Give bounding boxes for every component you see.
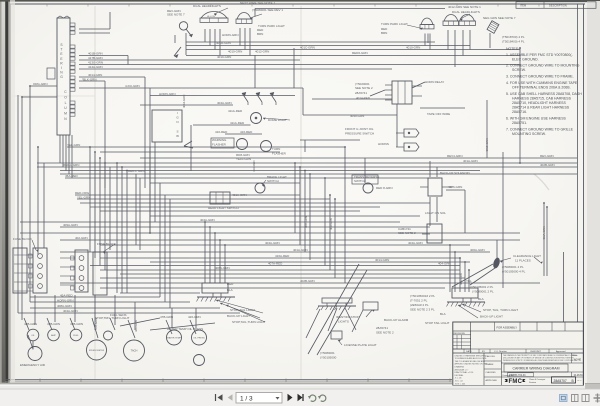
svg-text:BLA: BLA <box>478 297 484 301</box>
svg-text:4014-GRN: 4014-GRN <box>375 258 389 262</box>
svg-text:4014-GRN: 4014-GRN <box>88 73 102 77</box>
svg-text:RED-L GRN: RED-L GRN <box>128 169 144 173</box>
svg-text:4012-GRN SEE NOTE 1: 4012-GRN SEE NOTE 1 <box>448 5 481 9</box>
svg-text:RED: RED <box>227 282 234 286</box>
svg-text:*BLK-GRN: *BLK-GRN <box>82 78 97 82</box>
svg-text:401A-GRN: 401A-GRN <box>293 248 308 252</box>
svg-text:4010-GRN: 4010-GRN <box>406 46 420 50</box>
svg-text:N: N <box>176 120 178 124</box>
svg-text:WATER TEMP OIL PRESS: WATER TEMP OIL PRESS <box>167 327 203 331</box>
svg-text:936655-Y02-04: 936655-Y02-04 <box>509 374 526 377</box>
svg-text:(T5018700) 4 PL: (T5018700) 4 PL <box>502 35 525 39</box>
svg-text:406A-GRN: 406A-GRN <box>470 248 485 252</box>
svg-text:T: T <box>60 48 62 52</box>
svg-text:47B-GRN: 47B-GRN <box>160 315 173 319</box>
svg-text:401B-GRN: 401B-GRN <box>88 52 103 56</box>
svg-text:HORN-GRN: HORN-GRN <box>57 299 74 303</box>
svg-text:STOP, TAIL, TURN LIGHT: STOP, TAIL, TURN LIGHT <box>483 308 518 312</box>
svg-text:SEE NOTE 7: SEE NOTE 7 <box>167 13 185 17</box>
svg-text:47B-GRN: 47B-GRN <box>47 322 60 326</box>
svg-text:.XX ± .02: .XX ± .02 <box>455 381 464 383</box>
svg-text:426-GRN: 426-GRN <box>188 315 201 319</box>
svg-text:TAPE OFF WIRE: TAPE OFF WIRE <box>427 112 450 116</box>
svg-text:FLASHER: FLASHER <box>272 152 287 156</box>
svg-text:Scale: Scale <box>573 355 579 357</box>
svg-text:BACK-UP SOLENOID: BACK-UP SOLENOID <box>440 171 470 175</box>
svg-text:(Y50105000: (Y50105000 <box>320 356 337 360</box>
svg-text:LIGHTS: LIGHTS <box>338 320 349 324</box>
svg-text:APPLIED UNLESS NOTED ON THE: APPLIED UNLESS NOTED ON THE <box>455 363 488 366</box>
svg-text:S: S <box>176 129 178 133</box>
svg-text:TURN PARK LIGHT: TURN PARK LIGHT <box>381 22 408 26</box>
svg-text:FMC: FMC <box>509 379 523 385</box>
svg-text:DESCRIPTION: DESCRIPTION <box>549 4 567 8</box>
svg-text:DRAWING: DRAWING <box>455 366 465 369</box>
svg-text:RED6-GRN: RED6-GRN <box>352 51 368 55</box>
svg-text:WARNING: WARNING <box>212 138 227 142</box>
svg-text:YEL-GRN: YEL-GRN <box>77 196 90 200</box>
svg-text:404A-GRN: 404A-GRN <box>265 241 280 245</box>
svg-text:402B-GRN: 402B-GRN <box>300 279 315 283</box>
svg-text:RED 8-GRN: RED 8-GRN <box>376 186 393 190</box>
svg-text:(T5018400) 4 PL: (T5018400) 4 PL <box>502 40 525 44</box>
svg-text:417B-GRN: 417B-GRN <box>88 56 103 60</box>
svg-text:409A-GRN: 409A-GRN <box>63 223 78 227</box>
svg-text:PRESSURE SWITCH: PRESSURE SWITCH <box>345 132 374 136</box>
svg-text:DUAL HEADLIGHTS: DUAL HEADLIGHTS <box>193 4 221 8</box>
svg-text:4010-GRN: 4010-GRN <box>228 50 242 54</box>
svg-text:TURN: TURN <box>272 147 280 151</box>
svg-text:407A-RED: 407A-RED <box>268 262 283 266</box>
svg-text:408-GRN: 408-GRN <box>304 216 308 228</box>
svg-text:4014-GRN: 4014-GRN <box>182 95 186 108</box>
svg-text:APPROVED: APPROVED <box>486 379 498 382</box>
svg-text:NEG GRN SEE NOTE 7: NEG GRN SEE NOTE 7 <box>483 16 516 20</box>
svg-text:DECIMAL: DECIMAL <box>455 374 465 377</box>
svg-text:EMERGENCY AIR: EMERGENCY AIR <box>20 363 46 367</box>
svg-text:a ---: a --- <box>578 380 582 382</box>
svg-text:RED-L GRN: RED-L GRN <box>63 163 79 167</box>
svg-text:(Y50105001 2 PL: (Y50105001 2 PL <box>470 285 494 289</box>
svg-text:411A-RED: 411A-RED <box>230 121 245 125</box>
svg-text:TOLERANCES ARE AS FOLLOWS:: TOLERANCES ARE AS FOLLOWS: <box>455 357 488 360</box>
svg-text:28A5707: 28A5707 <box>554 379 567 383</box>
svg-text:7. CONNECT GROUND WIRE TO GRIL: 7. CONNECT GROUND WIRE TO GRILLE <box>506 128 574 132</box>
svg-text:4040-GRN: 4040-GRN <box>350 114 364 118</box>
svg-text:426-GRN: 426-GRN <box>134 320 138 332</box>
svg-text:M: M <box>64 112 67 116</box>
svg-text:45A-RED: 45A-RED <box>60 294 74 298</box>
svg-text:G: G <box>60 75 63 79</box>
svg-text:404-GRN: 404-GRN <box>438 262 451 266</box>
svg-text:11 PLACES: 11 PLACES <box>515 259 531 263</box>
svg-text:4014-RED: 4014-RED <box>356 96 371 100</box>
svg-text:404A-GRN: 404A-GRN <box>217 101 232 105</box>
svg-text:IDENTIFICATION: IDENTIFICATION <box>336 315 360 319</box>
svg-text:HEAD LIGHT SWITCH: HEAD LIGHT SWITCH <box>208 206 239 210</box>
svg-text:HORN-GRN: HORN-GRN <box>159 92 176 96</box>
svg-text:.XXX ± .005: .XXX ± .005 <box>455 383 467 385</box>
svg-text:CAD FILE: CAD FILE <box>486 355 496 358</box>
svg-text:NONE: NONE <box>574 359 582 362</box>
svg-text:28A5751.: 28A5751. <box>512 121 527 125</box>
svg-text:(2E50A# 2 PL: (2E50A# 2 PL <box>410 303 429 307</box>
svg-text:REV4-GRN: REV4-GRN <box>447 154 463 158</box>
svg-text:SEE NOTE 2: SEE NOTE 2 <box>355 86 373 90</box>
svg-text:402-GRN: 402-GRN <box>75 236 88 240</box>
svg-text:402B-GRN: 402B-GRN <box>540 163 555 167</box>
svg-text:(Y50105000 4 PL: (Y50105000 4 PL <box>502 270 526 274</box>
svg-text:404A-GRN: 404A-GRN <box>63 309 78 313</box>
svg-text:ORG-GRN: ORG-GRN <box>33 82 48 86</box>
svg-text:ITEM: ITEM <box>520 4 526 8</box>
svg-text:LICENSE PLATE LIGHT: LICENSE PLATE LIGHT <box>344 343 377 347</box>
svg-text:BLA: BLA <box>440 312 446 316</box>
svg-text:47B-GRN: 47B-GRN <box>94 318 98 330</box>
svg-text:OFF TERMINAL ENDS 206A & 206B.: OFF TERMINAL ENDS 206A & 206B. <box>512 86 571 90</box>
svg-text:404A-GRN: 404A-GRN <box>408 241 423 245</box>
svg-text:416A-RED: 416A-RED <box>275 254 290 258</box>
svg-text:408A-GRN: 408A-GRN <box>57 304 72 308</box>
svg-text:SCREW.: SCREW. <box>512 68 526 72</box>
svg-text:(Y5080001 SEE REV 1: (Y5080001 SEE REV 1 <box>252 8 283 12</box>
svg-text:CHKD/INIT: CHKD/INIT <box>530 351 542 353</box>
svg-text:47B-GRN: 47B-GRN <box>70 322 83 326</box>
svg-text:401D-GRN: 401D-GRN <box>216 41 231 45</box>
svg-text:4012-GRN: 4012-GRN <box>255 50 269 54</box>
svg-text:FUEL: FUEL <box>73 335 79 337</box>
svg-text:DATE: DATE <box>466 350 472 353</box>
svg-text:NEXT WIRE SEE NOTE 1: NEXT WIRE SEE NOTE 1 <box>240 1 275 5</box>
svg-text:WATER TEMP: WATER TEMP <box>167 337 182 340</box>
svg-text:SWITCH: SWITCH <box>267 179 279 183</box>
svg-text:411A-RED: 411A-RED <box>228 109 243 113</box>
svg-text:LIGHT ON SOL: LIGHT ON SOL <box>425 211 446 215</box>
svg-text:406A-GRN: 406A-GRN <box>542 226 546 240</box>
svg-text:(Y5080001: (Y5080001 <box>320 351 335 355</box>
svg-text:28A5741: 28A5741 <box>355 91 367 95</box>
svg-text:CHECKED: CHECKED <box>486 372 497 374</box>
svg-text:BLA: BLA <box>227 288 233 292</box>
svg-text:FLASHER: FLASHER <box>212 143 227 147</box>
svg-text:1 / 3: 1 / 3 <box>240 396 253 403</box>
svg-text:28A5714 & REAR LIGHT HARNESS: 28A5714 & REAR LIGHT HARNESS <box>512 106 570 110</box>
svg-text:DUAL HEADLIGHTS: DUAL HEADLIGHTS <box>452 10 480 14</box>
svg-text:28A5741: 28A5741 <box>376 326 388 330</box>
svg-text:HORN-GRN: HORN-GRN <box>222 33 239 37</box>
svg-text:409-GRN: 409-GRN <box>329 218 333 230</box>
svg-text:TACH: TACH <box>131 349 138 353</box>
svg-text:28A5716.: 28A5716. <box>512 110 527 114</box>
svg-text:REV-GRN: REV-GRN <box>540 154 554 158</box>
svg-text:HI-LOW: HI-LOW <box>207 16 216 18</box>
svg-text:ELEC GROUND.: ELEC GROUND. <box>512 58 539 62</box>
svg-text:SWITCH: SWITCH <box>354 179 366 183</box>
svg-text:STOP TAIL LIGHT: STOP TAIL LIGHT <box>425 321 450 325</box>
svg-text:I: I <box>61 66 62 70</box>
svg-text:HORNS: HORNS <box>378 142 389 146</box>
svg-text:FRACTIONAL ± 1/16: FRACTIONAL ± 1/16 <box>455 371 475 374</box>
svg-text:YEL0-GRN: YEL0-GRN <box>236 157 251 161</box>
svg-text:(Y50105001# 2 PL: (Y50105001# 2 PL <box>410 294 435 298</box>
svg-text:406A-GRN: 406A-GRN <box>215 266 230 270</box>
svg-text:TURN PARK LIGHT: TURN PARK LIGHT <box>258 24 285 28</box>
svg-text:45A-RED: 45A-RED <box>65 174 79 178</box>
svg-text:STOP,TAIL,TURN LIGHT: STOP,TAIL,TURN LIGHT <box>232 320 266 324</box>
svg-text:DRAWN: DRAWN <box>486 363 494 366</box>
svg-text:RED-ORG: RED-ORG <box>75 191 90 195</box>
svg-text:BRN: BRN <box>381 31 387 35</box>
svg-text:Division: Division <box>529 382 536 384</box>
svg-text:W: W <box>176 134 179 138</box>
svg-text:NOTES:: NOTES: <box>506 47 519 51</box>
svg-text:(Y5080001 4 PL: (Y5080001 4 PL <box>502 265 524 269</box>
svg-text:YEL-GRN: YEL-GRN <box>67 143 80 147</box>
svg-text:THE TOLERANCES BELOW ARE: THE TOLERANCES BELOW ARE <box>455 360 486 363</box>
svg-text:404-GRN: 404-GRN <box>459 273 463 285</box>
svg-text:L: L <box>65 101 67 105</box>
svg-text:UNLESS OTHERWISE SPECIFIED: UNLESS OTHERWISE SPECIFIED <box>455 355 487 357</box>
svg-text:28A5710, HEADLIGHT HARNESS: 28A5710, HEADLIGHT HARNESS <box>512 101 566 105</box>
svg-text:HARNESS 28A5715, CAB HARNESS: HARNESS 28A5715, CAB HARNESS <box>512 97 572 101</box>
svg-text:4. FOR USE WITH CUMMINS ENGINE: 4. FOR USE WITH CUMMINS ENGINE TAPE <box>506 81 578 85</box>
svg-text:OIL PRESS: OIL PRESS <box>193 338 205 340</box>
svg-text:Chain & Conveyor: Chain & Conveyor <box>529 379 546 381</box>
svg-text:.X ± .06: .X ± .06 <box>455 378 463 380</box>
svg-text:YEL: YEL <box>466 279 472 283</box>
svg-text:SEE NOTE 2: SEE NOTE 2 <box>398 231 416 235</box>
svg-text:C.O. Number: C.O. Number <box>494 350 507 353</box>
svg-text:414A-GRN: 414A-GRN <box>88 65 103 69</box>
svg-text:ANGULAR ± 1°: ANGULAR ± 1° <box>455 368 469 371</box>
svg-text:HORN RELAY: HORN RELAY <box>425 80 444 84</box>
svg-text:4-DU-GRN: 4-DU-GRN <box>125 84 140 88</box>
svg-text:BACK-UP LIGHT: BACK-UP LIGHT <box>227 314 250 318</box>
svg-text:401A-GRN: 401A-GRN <box>232 193 247 197</box>
svg-text:42B-GRN: 42B-GRN <box>24 322 37 326</box>
svg-text:404A-GRN: 404A-GRN <box>200 218 215 222</box>
svg-text:4010-GRN: 4010-GRN <box>217 55 231 59</box>
svg-text:BACK-UP ALARM: BACK-UP ALARM <box>384 318 409 322</box>
svg-text:416-RED: 416-RED <box>252 160 256 172</box>
svg-text:SEE NOTE 2: SEE NOTE 2 <box>376 331 394 335</box>
svg-text:MOUNTING SCREW.: MOUNTING SCREW. <box>512 132 546 136</box>
svg-text:FRONT U-JOINT OIL: FRONT U-JOINT OIL <box>345 127 374 131</box>
svg-text:FUSE BLOCK: FUSE BLOCK <box>13 237 32 241</box>
svg-text:CLEARANCE LIGHT: CLEARANCE LIGHT <box>513 254 541 258</box>
svg-text:SPEEDOMETER: SPEEDOMETER <box>89 350 105 352</box>
svg-text:BACK-UP LIGHT: BACK-UP LIGHT <box>480 315 503 319</box>
svg-text:6. WITH GM ENGINE USE HARNESS: 6. WITH GM ENGINE USE HARNESS <box>506 117 567 121</box>
svg-text:BRN: BRN <box>257 32 263 36</box>
svg-text:FOR ASSEMBLY: FOR ASSEMBLY <box>497 325 518 329</box>
svg-text:CARRIER WIRING DIAGRAM: CARRIER WIRING DIAGRAM <box>512 367 559 371</box>
svg-text:SEE NOTE 2 3 PL: SEE NOTE 2 3 PL <box>410 308 435 312</box>
svg-text:4086-GRN: 4086-GRN <box>448 185 462 189</box>
svg-text:2. CONNECT GROUND WIRE TO MOUN: 2. CONNECT GROUND WIRE TO MOUNTING <box>506 64 580 68</box>
svg-text:Approved: Approved <box>556 350 566 353</box>
svg-text:401B-GRN: 401B-GRN <box>485 138 489 152</box>
svg-text:(Y5080001 2 PL: (Y5080001 2 PL <box>472 290 494 294</box>
svg-text:O: O <box>64 95 67 99</box>
svg-text:(T-7051 2 PL: (T-7051 2 PL <box>410 299 428 303</box>
svg-text:AMP: AMP <box>51 334 56 337</box>
svg-text:410-RED: 410-RED <box>215 130 228 134</box>
svg-text:FUEL SENS: FUEL SENS <box>110 313 127 317</box>
svg-text:416-RED: 416-RED <box>240 130 253 134</box>
svg-text:413G-GRN: 413G-GRN <box>88 61 103 65</box>
svg-text:1. ASSEMBLE PER FMC STD Y00T08: 1. ASSEMBLE PER FMC STD Y00T0800(- <box>506 53 573 57</box>
svg-text:401C-GRN: 401C-GRN <box>300 46 315 50</box>
svg-text:401A-GRN: 401A-GRN <box>463 159 478 163</box>
svg-text:5. USE CAB SHELL HARNESS 28A57: 5. USE CAB SHELL HARNESS 28A5708, DASH <box>506 92 582 96</box>
svg-text:3. CONNECT GROUND WIRE TO FRAM: 3. CONNECT GROUND WIRE TO FRAME. <box>506 75 574 79</box>
